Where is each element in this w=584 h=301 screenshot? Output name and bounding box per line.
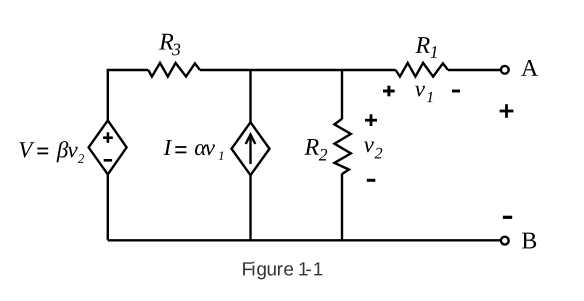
wire current-source bottom lead [249,175,251,240]
current source arrow [246,135,256,165]
wire voltage-source bottom lead [107,174,109,240]
voltage source minus sign [104,159,112,162]
current source U diamond [232,122,270,175]
node A label [521,60,538,76]
label R2 [304,139,327,161]
terminal A circle [501,66,509,74]
wire to terminal A [448,69,500,71]
voltage source plus sign [103,132,113,143]
voltage source V diamond [89,120,127,174]
resistor R3 [148,63,200,77]
resistor R1 [396,63,448,77]
minus sign v1 [452,90,460,93]
wire top-left corner [108,70,149,121]
wire bottom [108,239,501,241]
node B label [522,233,536,249]
minus sign v2 [367,179,376,182]
label v1 [415,86,432,102]
wire R2 bottom lead [341,173,343,240]
label R3 [159,34,180,56]
plus sign v2 [365,114,377,126]
wire top middle [200,69,396,71]
wire current-source top lead [249,70,251,122]
label V = beta v2 [20,141,85,163]
wire R2 top lead [341,70,343,119]
label I = alpha v1 [164,140,224,160]
label v2 [364,141,382,158]
resistor R2 [334,119,351,174]
caption Figure 1-1 [243,262,322,280]
port plus sign [500,104,514,118]
terminal B circle [501,237,509,245]
label R1 [415,37,436,58]
plus sign v1 [383,86,395,97]
port minus sign [503,216,512,219]
